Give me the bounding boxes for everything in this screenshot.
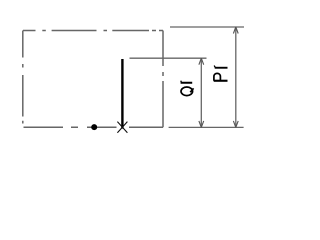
- extension line top for P1: [170, 26, 244, 28]
- phantom outline top edge (chain line): [23, 30, 163, 32]
- thick vertical edge line: [121, 59, 123, 129]
- arrowhead P1 up: [233, 27, 238, 34]
- phantom outline left edge (chain line): [22, 31, 24, 124]
- junction dot on bottom line: [91, 124, 97, 130]
- dimension line P1: [235, 27, 237, 127]
- arrowhead Q1 up: [199, 58, 204, 64]
- label Q1 (rotated, drawn as strokes): [181, 81, 194, 96]
- extension line for Q1 (top of thick line): [130, 57, 207, 59]
- label P1 (rotated, drawn as strokes): [214, 66, 228, 81]
- phantom outline bottom edge (chain line): [24, 126, 164, 128]
- arrowhead Q1 down: [199, 121, 204, 128]
- arrowhead P1 down: [233, 121, 238, 128]
- dimension line Q1: [200, 58, 202, 127]
- extension baseline at bottom: [169, 126, 244, 128]
- X marker at line foot: [117, 122, 127, 133]
- phantom outline right edge (chain line): [162, 31, 164, 128]
